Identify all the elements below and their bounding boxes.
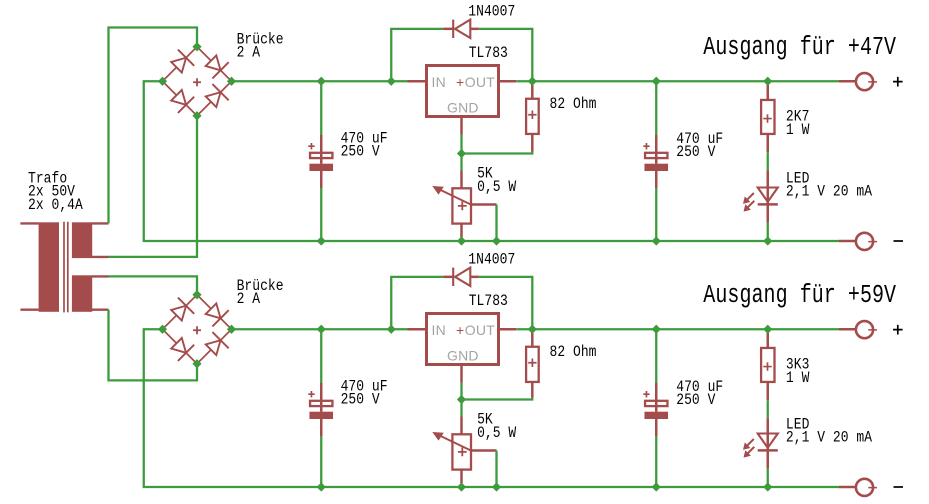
svg-text:250 V: 250 V (341, 392, 381, 409)
junction bridge B2 AC2 vertex (192, 359, 201, 368)
capacitor CA1 lead top (320, 81, 322, 135)
junction minus rail / pot bottom (457, 236, 466, 245)
bridge rectifier B2 diode AC1,+ (197, 295, 232, 330)
bridge rectifier B1 + mark (193, 78, 201, 86)
regulator U2 TL783 body (427, 314, 499, 365)
resistor RA1 origin mark (528, 111, 536, 119)
potentiometer P2 origin mark (458, 448, 467, 457)
potentiometer P1 wiper lead (471, 203, 497, 206)
wire resistor to LED (767, 400, 769, 418)
junction plus rail / diode + 82 Ohm (528, 325, 537, 334)
junction bridge B2 + vertex (227, 325, 236, 334)
junction plus rail / diode + 82 Ohm (528, 77, 537, 86)
junction plus rail / LED resistor (763, 325, 772, 334)
LED DB cathode bar (758, 449, 778, 452)
resistor RB2 3K3 lead top (767, 329, 770, 348)
capacitor CA2 lead top (655, 81, 657, 135)
svg-text:2,1 V 20 mA: 2,1 V 20 mA (786, 430, 873, 447)
diode D1 1N4007 (443, 28, 453, 31)
potentiometer P1 origin mark (458, 202, 467, 211)
wire diode D1 right leg (479, 29, 533, 81)
resistor RA1 lead bottom (531, 134, 534, 152)
capacitor CB2 lead top (655, 329, 657, 383)
transformer TR1 secondary 1 lead bottom (92, 256, 109, 258)
regulator U2 pin GND (460, 365, 463, 383)
junction bridge B2 AC1 vertex (192, 290, 201, 299)
wire GND node to 82 Ohm (462, 398, 533, 400)
junction minus rail / wiper (492, 482, 501, 491)
capacitor CA2 top plate (645, 153, 667, 158)
svg-text:0,5 W: 0,5 W (477, 425, 517, 442)
capacitor CB2 bottom plate (644, 412, 668, 419)
regulator U1 TL783 body (427, 66, 499, 117)
wire resistor to LED (767, 152, 769, 170)
capacitor CB2 lead bottom (655, 419, 658, 436)
resistor RB2 origin mark (763, 362, 771, 370)
svg-text:TL783: TL783 (469, 45, 508, 62)
terminal pin origin mark (868, 80, 877, 84)
junction minus rail / C1 (317, 236, 326, 245)
junction bridge B1 - vertex (158, 77, 167, 86)
regulator U2 pin OUT (499, 328, 517, 331)
terminal pin origin mark (868, 485, 877, 489)
transformer TR1 primary winding (39, 222, 59, 311)
bridge rectifier B2 diode -,AC1 (163, 295, 198, 330)
wire plus rail bridge to IN pin (232, 80, 408, 82)
junction minus rail / pot bottom (457, 482, 466, 491)
resistor RB1 lead bottom (531, 382, 534, 398)
wire plus rail OUT to terminal (516, 328, 839, 330)
svg-text:1N4007: 1N4007 (468, 4, 515, 21)
junction plus rail / C1 (317, 77, 326, 86)
bridge rectifier B1 diode AC2,+ (197, 81, 232, 116)
resistor RA2 2K7 body (761, 100, 774, 134)
svg-text:250 V: 250 V (341, 144, 381, 161)
terminal label - (894, 486, 904, 488)
regulator U1 pin GND (460, 117, 463, 135)
svg-text:Ausgang für +47V: Ausgang für +47V (703, 33, 896, 62)
wire wiper to minus rail (495, 205, 497, 242)
potentiometer P2 lead bottom (460, 470, 463, 483)
bridge rectifier B2 diode AC2,+ (197, 329, 232, 364)
capacitor CA1 bottom plate (309, 164, 333, 171)
wire plus rail bridge to IN pin (232, 328, 408, 330)
capacitor CB1 polarity + (308, 391, 314, 397)
svg-text:IN: IN (432, 322, 446, 338)
resistor RB1 82 Ohm body (526, 347, 539, 382)
transformer TR1 secondary 2 lead top (92, 275, 109, 277)
junction plus rail / C1 (317, 325, 326, 334)
svg-text:+: + (456, 322, 464, 338)
LED DA triangle (758, 188, 778, 202)
wire plus rail OUT to terminal (516, 80, 839, 82)
transformer TR1 secondary winding 1 (72, 222, 92, 258)
capacitor CB1 lead top (320, 329, 322, 383)
wire bridge minus to minus rail (144, 329, 839, 487)
wire diode D2 left leg (391, 277, 443, 329)
potentiometer P1 body (452, 188, 471, 223)
svg-text:GND: GND (447, 99, 479, 115)
capacitor CA2 polarity + (643, 143, 649, 149)
bridge rectifier B2 diode -,AC2 (163, 329, 198, 364)
transformer TR1 primary lead bottom (20, 309, 38, 311)
terminal pad + output (839, 328, 856, 331)
capacitor CA1 top plate (310, 153, 332, 158)
wire diode D1 left leg (391, 29, 443, 81)
resistor RA2 2K7 lead top (767, 81, 770, 100)
svg-text:TL783: TL783 (469, 293, 508, 310)
potentiometer P2 lead top (460, 400, 462, 417)
svg-text:GND: GND (447, 347, 479, 363)
terminal pad - output (839, 486, 856, 489)
LED DA cathode bar (758, 203, 778, 206)
transformer TR1 secondary winding 2 (72, 275, 92, 312)
bridge rectifier B1 diode AC1,+ (197, 47, 232, 82)
svg-text:+: + (456, 74, 464, 90)
potentiometer P1 lead top (460, 154, 462, 171)
svg-text:1 W: 1 W (786, 370, 810, 387)
wire bridge minus to minus rail (144, 81, 839, 241)
terminal pin origin mark (868, 239, 877, 243)
bridge rectifier B1 diode -,AC1 (163, 47, 198, 82)
bridge rectifier B1 diode -,AC2 (163, 81, 198, 116)
potentiometer P2 body (452, 434, 471, 469)
potentiometer P2 wiper lead (471, 449, 497, 452)
regulator U1 pin IN (408, 80, 427, 83)
svg-text:2 A: 2 A (237, 44, 261, 61)
svg-text:Ausgang für +59V: Ausgang für +59V (703, 281, 896, 310)
svg-text:82 Ohm: 82 Ohm (550, 344, 597, 361)
resistor RB2 3K3 body (761, 348, 774, 382)
terminal pad - output (839, 240, 856, 243)
transformer TR1 core (63, 222, 65, 313)
svg-text:2 A: 2 A (237, 291, 261, 308)
resistor RA2 lead bottom (767, 134, 770, 152)
svg-text:2x 0,4A: 2x 0,4A (28, 197, 83, 214)
capacitor CA2 lead bottom (655, 171, 658, 188)
regulator U1 pin OUT (499, 80, 517, 83)
terminal label + (893, 77, 903, 87)
regulator U2 pin IN (408, 328, 427, 331)
junction plus rail / C2 (652, 77, 661, 86)
svg-text:OUT: OUT (465, 74, 495, 90)
junction GND node (457, 395, 466, 404)
capacitor CB1 lead bottom (320, 419, 323, 436)
svg-text:250 V: 250 V (676, 144, 716, 161)
potentiometer P1 lead bottom (460, 224, 463, 237)
resistor RB1 82 Ohm lead top (531, 329, 534, 347)
terminal label + (893, 325, 903, 335)
capacitor CA2 bottom plate (644, 164, 668, 171)
junction plus rail / diode leg (387, 325, 396, 334)
junction minus rail / C2 (652, 482, 661, 491)
wire diode D2 right leg (479, 277, 533, 329)
potentiometer P2 wiper arrow (439, 435, 471, 451)
bridge rectifier B2 + mark (193, 326, 201, 334)
resistor RA1 82 Ohm lead top (531, 81, 534, 99)
transformer TR1 secondary 2 lead bottom (92, 309, 109, 311)
junction bridge B2 - vertex (158, 325, 167, 334)
wire secondary2 top to bridge B2 AC1 (109, 276, 198, 294)
junction bridge B1 AC1 vertex (192, 42, 201, 51)
junction minus rail / wiper (492, 236, 501, 245)
junction bridge B1 AC2 vertex (192, 111, 201, 120)
junction plus rail / diode leg (387, 77, 396, 86)
svg-text:OUT: OUT (465, 322, 495, 338)
junction minus rail / LED (763, 236, 772, 245)
svg-text:1 W: 1 W (786, 122, 810, 139)
capacitor CA1 polarity + (308, 143, 314, 149)
wire secondary1 top to bridge B1 AC1 (109, 28, 198, 224)
terminal label - (894, 240, 904, 242)
LED DB emission arrows (747, 439, 754, 446)
LED DB lead bottom (767, 468, 769, 487)
svg-text:2,1 V 20 mA: 2,1 V 20 mA (786, 184, 873, 201)
junction plus rail / C2 (652, 325, 661, 334)
capacitor CB1 bottom plate (309, 412, 333, 419)
LED DA emission arrows (747, 193, 754, 200)
junction minus rail / C1 (317, 482, 326, 491)
junction plus rail / LED resistor (763, 77, 772, 86)
LED DA lead top (767, 170, 770, 187)
LED DB lead top (767, 418, 770, 433)
diode D2 1N4007 (443, 276, 453, 279)
junction minus rail / LED (763, 482, 772, 491)
wire secondary2 bottom to bridge B2 AC2 (109, 310, 198, 381)
svg-text:82 Ohm: 82 Ohm (550, 96, 597, 113)
svg-text:0,5 W: 0,5 W (477, 179, 517, 196)
LED DB triangle (758, 434, 778, 448)
potentiometer P1 wiper arrow (439, 189, 471, 205)
junction GND node (457, 149, 466, 158)
terminal pad + output (839, 80, 856, 83)
resistor RA2 origin mark (763, 114, 771, 122)
wire secondary1 bottom to bridge B1 AC2 (109, 116, 198, 257)
wire GND node to 82 Ohm (462, 152, 533, 154)
capacitor CB2 polarity + (643, 391, 649, 397)
transformer TR1 primary lead top (20, 222, 38, 224)
capacitor CB1 top plate (310, 401, 332, 406)
junction bridge B1 + vertex (227, 77, 236, 86)
LED DA lead bottom (767, 222, 769, 241)
resistor RB2 lead bottom (767, 382, 770, 400)
transformer TR1 secondary 1 lead top (92, 222, 109, 224)
svg-text:1N4007: 1N4007 (468, 252, 515, 269)
capacitor CA1 lead bottom (320, 171, 323, 188)
resistor RA1 82 Ohm body (526, 99, 539, 134)
svg-text:IN: IN (432, 74, 446, 90)
svg-text:250 V: 250 V (676, 392, 716, 409)
terminal pin origin mark (868, 328, 877, 332)
capacitor CB2 top plate (645, 401, 667, 406)
resistor RB1 origin mark (528, 359, 536, 367)
wire wiper to minus rail (495, 451, 497, 488)
junction minus rail / C2 (652, 236, 661, 245)
